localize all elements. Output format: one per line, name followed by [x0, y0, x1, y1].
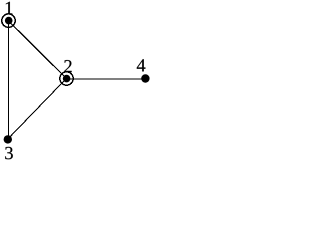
node 3 dot [4, 135, 12, 143]
wire edge 2-3 [8, 79, 67, 140]
ring of node 1 [2, 14, 15, 27]
wire edge 1-3 [8, 21, 10, 140]
wire edge 2-4 [67, 78, 146, 80]
label 4 [137, 59, 146, 71]
wire edge 1-2 [8, 21, 66, 79]
label 1 [6, 2, 13, 14]
node 2 dot [63, 75, 71, 83]
label 3 [5, 147, 13, 159]
label 2 [64, 60, 71, 72]
node 1 dot [5, 17, 13, 25]
ring of node 2 [60, 72, 73, 85]
node 4 dot [141, 74, 149, 82]
